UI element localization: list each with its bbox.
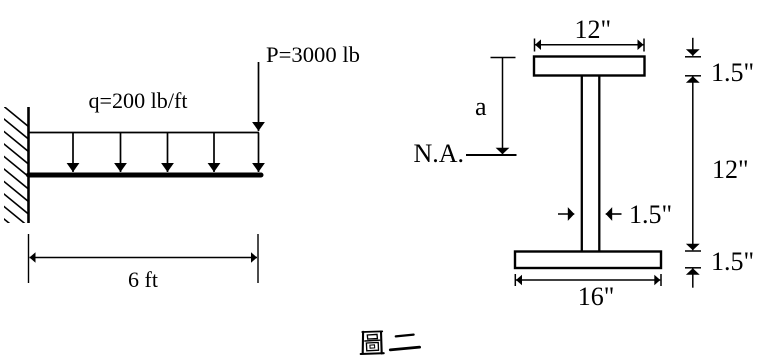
- I-beam web: [581, 76, 583, 252]
- distributed load top line: [29, 132, 260, 134]
- svg-text:1.5": 1.5": [711, 247, 754, 276]
- bottom 1.5in up arrow: [692, 268, 694, 287]
- top 12in dimension line: [535, 44, 644, 46]
- svg-text:1.5": 1.5": [629, 200, 672, 229]
- svg-text:12": 12": [712, 155, 749, 184]
- 12in vertical double arrow: [692, 76, 694, 250]
- load arrow 2: [120, 133, 122, 173]
- svg-text:1.5": 1.5": [711, 58, 754, 87]
- fixed support wall hatching: [0, 95, 40, 249]
- load arrow 3: [167, 133, 169, 173]
- dimension extension line left: [28, 234, 30, 283]
- caption glyph Tu (figure): [361, 331, 384, 354]
- 16in dimension line: [516, 279, 660, 281]
- top 12in dimension ticks: [534, 39, 536, 52]
- beam: [29, 173, 262, 178]
- web thickness arrow left: [558, 213, 574, 215]
- N.A. line: [466, 154, 517, 156]
- svg-text:16": 16": [578, 282, 615, 311]
- top 1.5in down arrow: [692, 38, 694, 56]
- svg-text:a: a: [475, 92, 487, 121]
- right column ticks: [685, 56, 701, 58]
- svg-text:q=200 lb/ft: q=200 lb/ft: [89, 88, 188, 113]
- web thickness arrow right: [606, 213, 622, 215]
- a dimension tick: [491, 57, 516, 59]
- wall face line: [27, 107, 30, 223]
- 6 ft dimension line: [30, 257, 258, 259]
- bottom 16in dimension ticks: [514, 274, 516, 286]
- svg-text:N.A.: N.A.: [414, 139, 465, 168]
- a dimension arrow: [502, 58, 504, 155]
- svg-text:12": 12": [575, 15, 612, 44]
- svg-text:6 ft: 6 ft: [128, 267, 158, 292]
- caption glyph Er (two): [390, 335, 419, 350]
- I-beam top flange: [534, 57, 645, 76]
- load arrow 5 (under P): [258, 133, 260, 173]
- force P arrow: [258, 62, 260, 131]
- dimension extension line right: [257, 234, 259, 283]
- svg-text:P=3000 lb: P=3000 lb: [266, 42, 360, 67]
- load arrow 1: [72, 133, 74, 173]
- load arrow 4: [213, 133, 215, 173]
- I-beam bottom flange: [515, 252, 661, 269]
